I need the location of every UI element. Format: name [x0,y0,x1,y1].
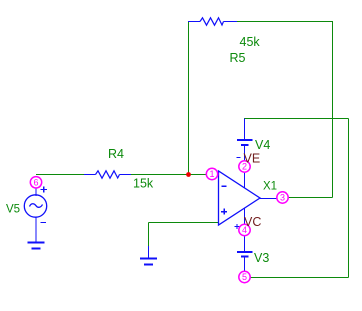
svg-text:1: 1 [209,169,214,179]
svg-text:VC: VC [244,215,261,229]
svg-text:15k: 15k [133,177,154,191]
svg-text:6: 6 [33,178,38,188]
svg-text:3: 3 [280,193,285,203]
svg-text:V3: V3 [254,251,269,265]
svg-text:45k: 45k [240,35,261,49]
svg-text:R5: R5 [230,51,246,65]
svg-text:V5: V5 [6,204,20,216]
svg-text:VE: VE [244,152,261,166]
svg-text:5: 5 [242,272,247,282]
svg-text:X1: X1 [263,181,277,193]
svg-text:R4: R4 [108,147,124,161]
svg-text:V4: V4 [255,138,270,152]
